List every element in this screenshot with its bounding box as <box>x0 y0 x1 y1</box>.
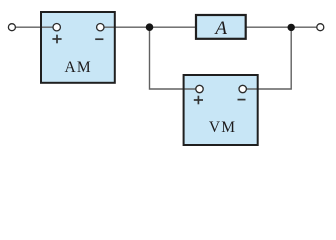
junction node between A and right terminal <box>288 24 295 31</box>
svg-text:AM: AM <box>65 59 92 76</box>
wire from right junction down to VM - terminal <box>246 27 291 89</box>
left input terminal <box>8 24 15 31</box>
AM plus sign <box>52 35 61 44</box>
ammeter AM box border <box>41 12 115 83</box>
junction node between AM and A <box>146 23 154 31</box>
component A box border <box>196 15 246 39</box>
voltmeter VM box fill <box>184 75 258 145</box>
wire from AM - terminal to component A <box>104 26 196 28</box>
VM plus sign <box>194 96 203 105</box>
right output terminal <box>317 24 324 31</box>
AM + terminal circle <box>53 24 60 31</box>
AM - terminal circle <box>97 24 104 31</box>
AM minus sign <box>95 38 103 40</box>
svg-text:A: A <box>213 18 227 39</box>
voltmeter VM box border <box>184 75 258 145</box>
label A <box>213 18 227 39</box>
label AM <box>65 59 92 76</box>
label VM <box>209 119 236 136</box>
ammeter AM box fill <box>41 12 115 83</box>
wire from left terminal to AM + terminal <box>15 26 53 28</box>
VM minus sign <box>238 99 246 101</box>
component A box fill <box>196 15 246 39</box>
VM - terminal circle <box>239 85 246 92</box>
svg-text:VM: VM <box>209 119 236 136</box>
VM + terminal circle <box>196 85 203 92</box>
wire from left junction down to VM + terminal <box>150 27 196 89</box>
wire from component A to right terminal <box>246 26 317 28</box>
